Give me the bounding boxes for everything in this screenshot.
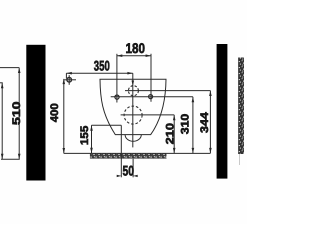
svg-text:210: 210: [165, 123, 177, 144]
svg-text:350: 350: [94, 58, 110, 74]
svg-text:510: 510: [11, 101, 23, 125]
svg-text:180: 180: [125, 40, 145, 56]
svg-text:155: 155: [79, 126, 91, 145]
svg-text:310: 310: [179, 114, 191, 135]
svg-text:400: 400: [49, 103, 61, 122]
svg-text:50: 50: [122, 163, 134, 179]
svg-text:344: 344: [199, 111, 211, 133]
